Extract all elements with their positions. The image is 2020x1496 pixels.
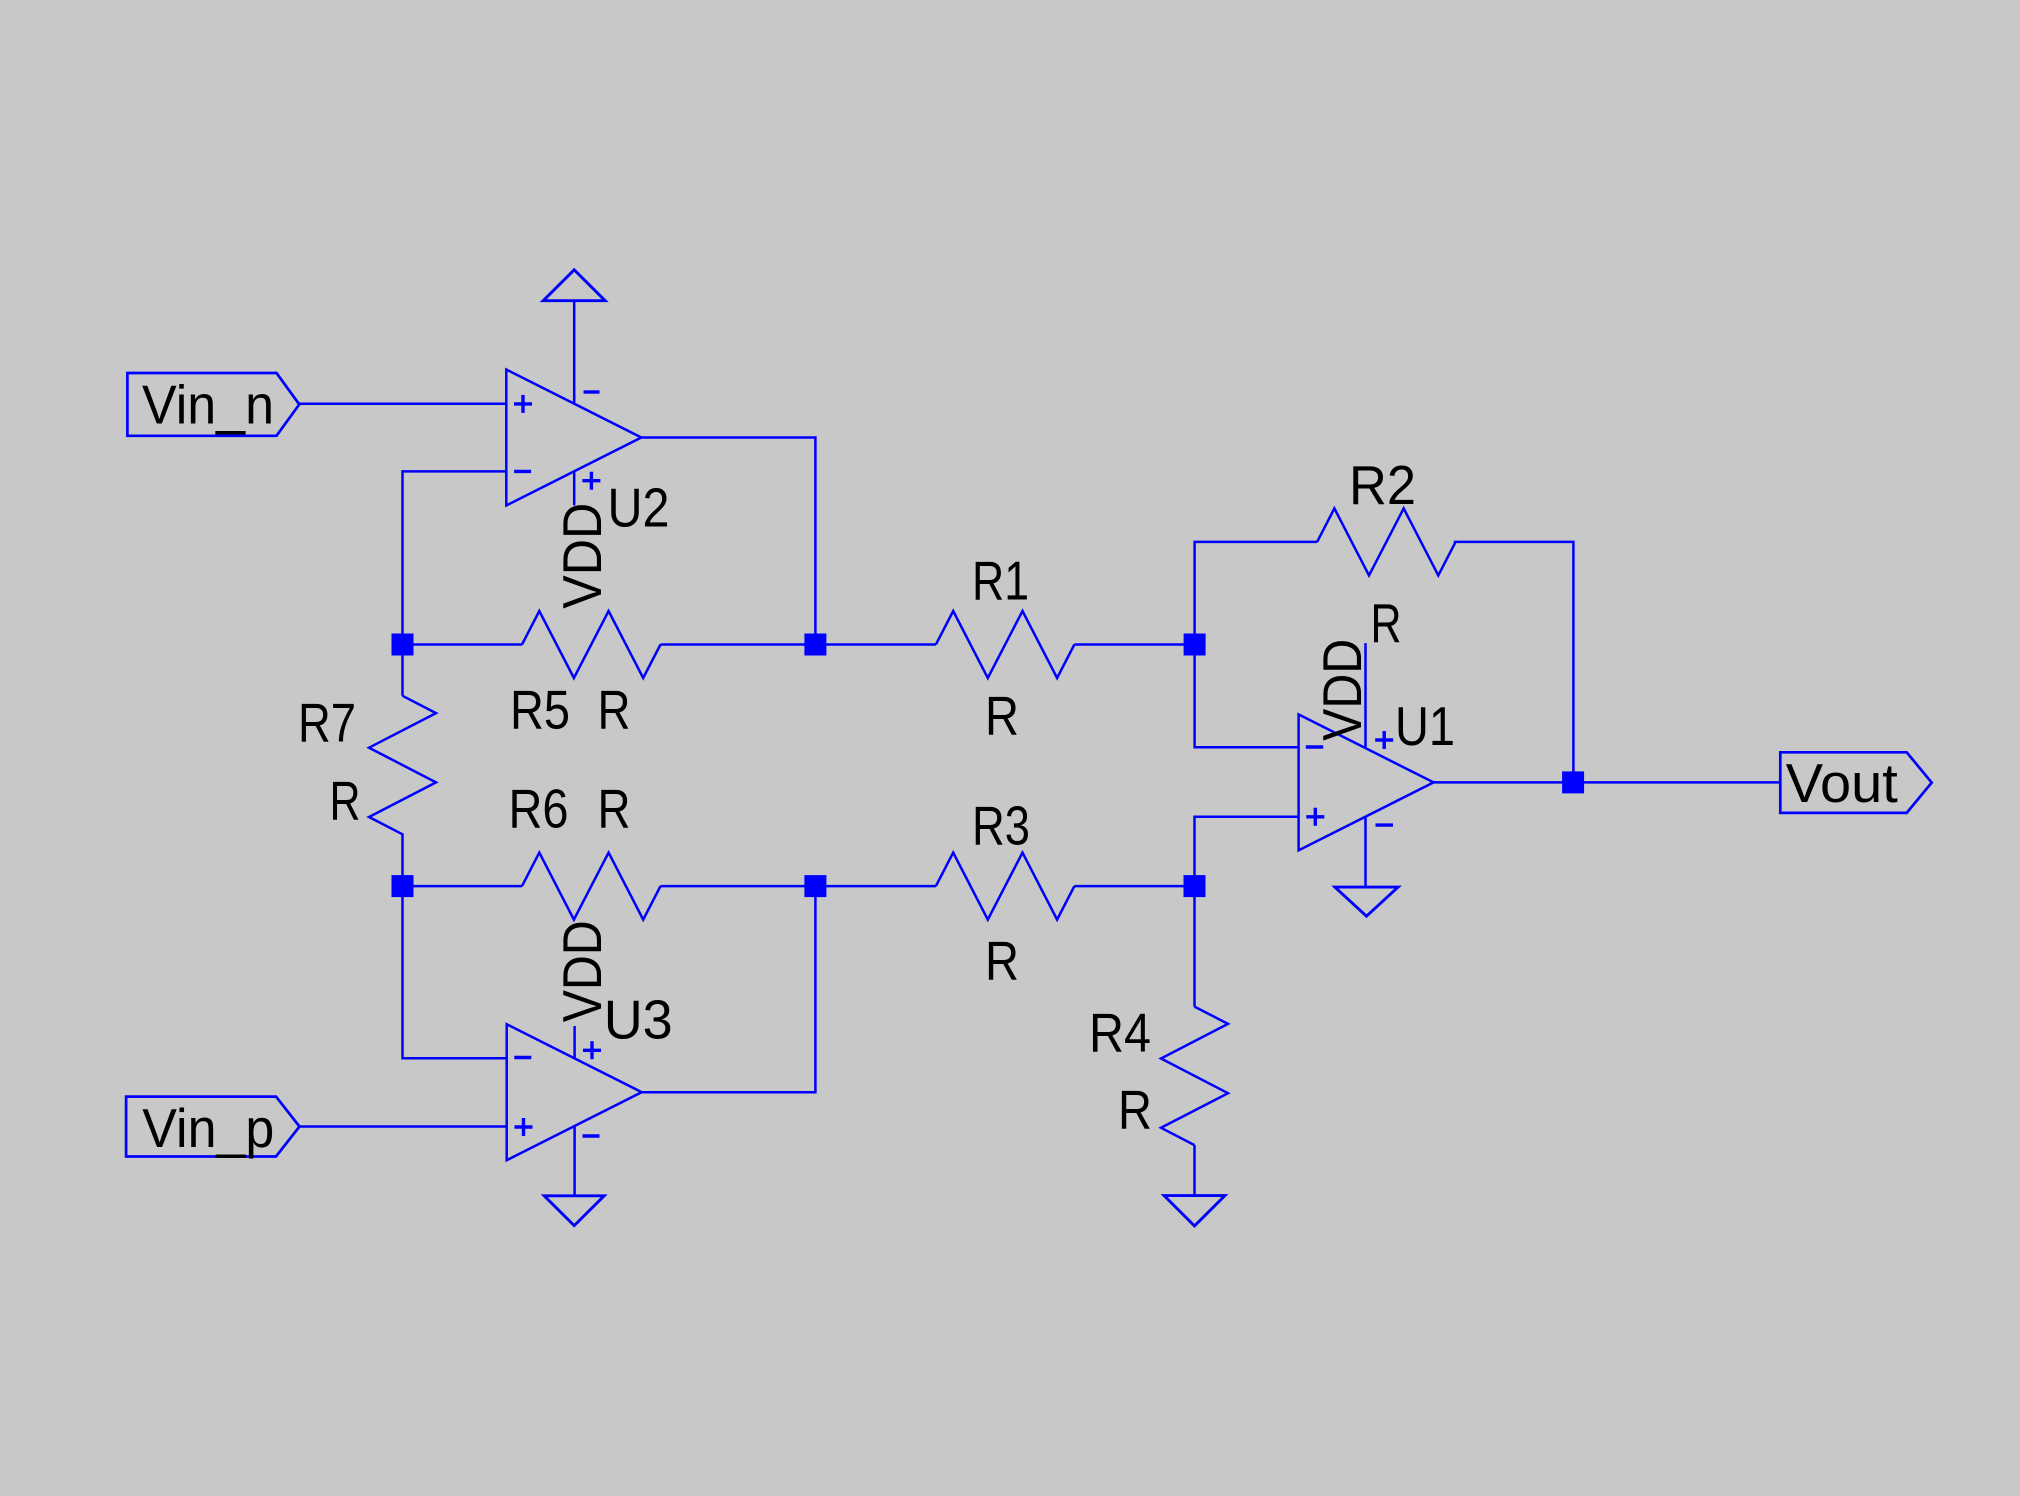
wire R6 right to node F	[661, 885, 816, 888]
junction node C	[1184, 634, 1206, 656]
input flag Vin_p	[126, 1097, 299, 1157]
svg-text:U3: U3	[604, 988, 673, 1050]
svg-text:R5: R5	[510, 678, 570, 740]
wire node F to R3 left	[815, 885, 936, 888]
U1 power + pin name	[1375, 731, 1393, 749]
resistor R2	[1317, 508, 1456, 575]
svg-text:VDD: VDD	[551, 920, 613, 1022]
wire R2 right down to output node	[1454, 542, 1574, 783]
wire node D to R6 left	[403, 885, 523, 888]
svg-text:R2: R2	[1349, 454, 1416, 516]
ground symbol below R4	[1164, 1196, 1225, 1226]
output flag Vout	[1780, 752, 1931, 813]
op-amp U1	[1299, 714, 1434, 850]
wire R1 right to node C	[1074, 643, 1194, 646]
U2 power - pin name	[584, 390, 600, 393]
op-amp U2	[506, 370, 641, 506]
pin U2 V+ stub	[573, 471, 576, 505]
svg-text:Vin_p: Vin_p	[142, 1097, 274, 1159]
op-amp U3	[507, 1024, 642, 1160]
svg-text:R: R	[1118, 1079, 1152, 1141]
junction node E	[1184, 875, 1206, 897]
ground symbol below U1	[1335, 887, 1398, 916]
junction node F	[804, 875, 826, 897]
wire R5 right to node B	[661, 643, 816, 646]
wire U2 output down to node B	[641, 438, 815, 645]
wire U1 V- pin to ground	[1364, 817, 1367, 887]
wire node D to U3 inverting input	[403, 886, 507, 1058]
svg-text:R: R	[1371, 592, 1402, 654]
U1 power - pin name	[1376, 823, 1394, 826]
svg-text:R7: R7	[298, 692, 356, 754]
wire node A to R5 left	[403, 643, 523, 646]
svg-text:R: R	[985, 930, 1019, 992]
resistor R7	[369, 696, 436, 835]
U3 input - mark	[514, 1056, 531, 1059]
wire U2 V- pin to VDD arrow	[573, 301, 576, 404]
pin U3 V+ stub	[573, 1026, 576, 1058]
wire node A to R7 top	[401, 645, 404, 696]
svg-text:R: R	[330, 770, 361, 832]
wire node E to R4 top	[1193, 886, 1196, 1007]
U2 input + mark	[514, 395, 532, 413]
wire U3 V- pin to ground	[573, 1126, 576, 1195]
svg-text:U2: U2	[608, 477, 670, 539]
ground symbol below U3	[544, 1196, 604, 1226]
wire U2 inverting input to node A	[403, 471, 507, 644]
resistor R3	[936, 853, 1075, 920]
junction node D	[392, 875, 414, 897]
wire R4 bottom to ground	[1193, 1145, 1196, 1196]
svg-text:R4: R4	[1089, 1001, 1151, 1063]
svg-text:Vin_n: Vin_n	[142, 374, 274, 436]
U2 power + pin name	[582, 472, 600, 490]
wire node B to R1 left	[815, 643, 936, 646]
wire R7 bottom to node D	[401, 833, 404, 886]
svg-text:R: R	[985, 684, 1019, 746]
power symbol VDD arrow above U2	[543, 270, 605, 301]
U3 power - pin name	[583, 1134, 600, 1137]
junction output node	[1562, 771, 1584, 793]
svg-text:R1: R1	[972, 550, 1029, 612]
wire U3 output up to node F	[642, 886, 816, 1092]
input flag Vin_n	[127, 373, 299, 436]
wire output node to Vout flag	[1573, 781, 1780, 784]
svg-text:VDD: VDD	[551, 503, 613, 609]
svg-text:R3: R3	[972, 795, 1030, 857]
svg-text:U1: U1	[1395, 695, 1455, 757]
resistor R6	[522, 853, 661, 920]
svg-text:R6: R6	[509, 777, 569, 839]
svg-text:Vout: Vout	[1786, 752, 1898, 814]
U1 input - mark	[1306, 745, 1323, 748]
svg-text:R: R	[598, 777, 631, 839]
svg-text:VDD: VDD	[1311, 639, 1373, 741]
U1 input + mark	[1306, 808, 1324, 826]
resistor R4	[1161, 1007, 1228, 1146]
wire node C up to R2 left	[1195, 542, 1318, 645]
pin U1 V+ stub	[1364, 643, 1367, 748]
junction node A	[392, 634, 414, 656]
wire Vin_n to U2 noninverting input	[299, 402, 506, 405]
svg-text:R: R	[598, 678, 631, 740]
wire node E to U1 noninverting input	[1195, 817, 1299, 886]
junction node B	[804, 634, 826, 656]
wire node C to U1 inverting input	[1195, 645, 1299, 748]
U3 power + pin name	[583, 1041, 601, 1059]
resistor R5	[522, 611, 661, 678]
U3 input + mark	[515, 1118, 533, 1136]
wire U1 output to output node	[1434, 781, 1574, 784]
wire R3 right to node E	[1074, 885, 1194, 888]
resistor R1	[936, 611, 1075, 678]
U2 input - mark	[514, 470, 531, 473]
wire Vin_p to U3 noninverting input	[300, 1125, 507, 1128]
